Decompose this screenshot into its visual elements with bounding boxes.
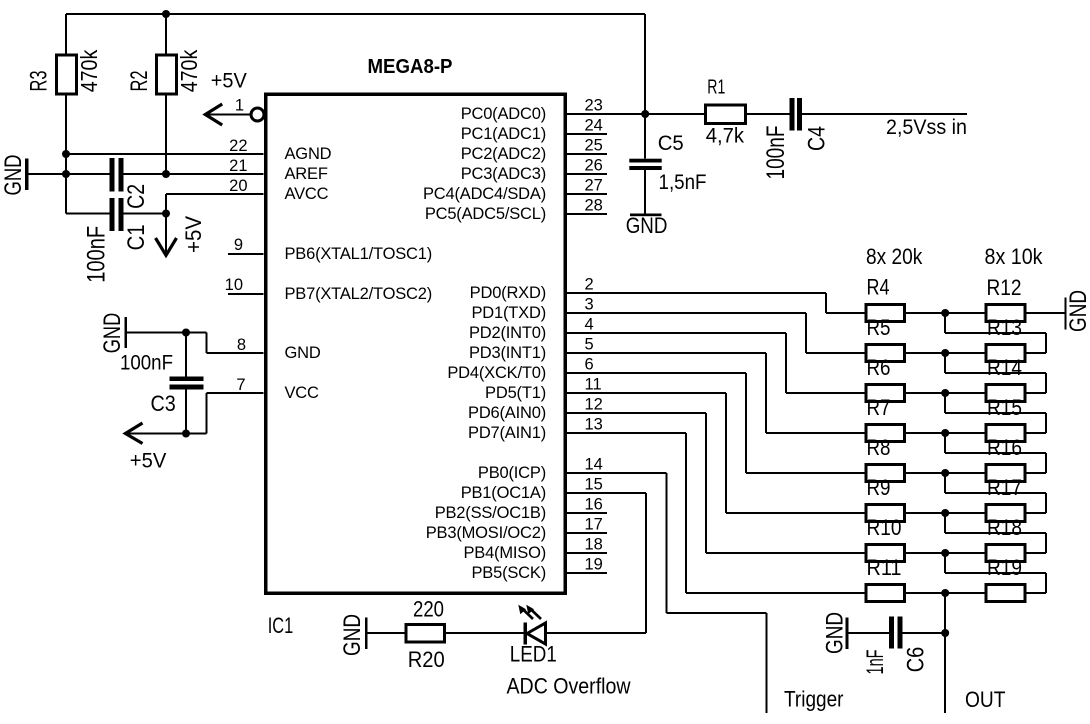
svg-text:+5V: +5V — [211, 70, 247, 93]
svg-text:ADC Overflow: ADC Overflow — [507, 674, 631, 699]
svg-text:R20: R20 — [408, 647, 445, 672]
svg-text:PD4(XCK/T0): PD4(XCK/T0) — [447, 364, 546, 382]
svg-text:R11: R11 — [867, 555, 902, 580]
svg-text:C1: C1 — [123, 224, 150, 250]
svg-text:PD6(AIN0): PD6(AIN0) — [468, 404, 546, 422]
svg-text:PC5(ADC5/SCL): PC5(ADC5/SCL) — [425, 205, 546, 223]
svg-text:GND: GND — [0, 155, 27, 196]
svg-text:23: 23 — [585, 97, 603, 115]
svg-text:R5: R5 — [867, 315, 891, 340]
svg-text:14: 14 — [585, 456, 603, 474]
svg-text:28: 28 — [585, 197, 603, 215]
svg-text:R13: R13 — [987, 315, 1022, 340]
svg-text:R12: R12 — [987, 275, 1022, 300]
svg-text:2,5Vss in: 2,5Vss in — [886, 116, 967, 139]
svg-text:GND: GND — [1065, 290, 1090, 332]
svg-text:PB0(ICP): PB0(ICP) — [478, 464, 546, 482]
svg-text:R17: R17 — [987, 475, 1022, 500]
svg-text:PB6(XTAL1/TOSC1): PB6(XTAL1/TOSC1) — [285, 245, 433, 263]
svg-text:IC1: IC1 — [268, 613, 294, 638]
svg-text:PB7(XTAL2/TOSC2): PB7(XTAL2/TOSC2) — [285, 285, 433, 303]
svg-text:PD1(TXD): PD1(TXD) — [472, 304, 547, 322]
svg-text:R10: R10 — [867, 515, 902, 540]
svg-text:+5V: +5V — [130, 450, 167, 473]
svg-text:MEGA8-P: MEGA8-P — [368, 56, 453, 78]
svg-text:+5V: +5V — [181, 216, 206, 253]
svg-text:PC3(ADC3): PC3(ADC3) — [461, 165, 546, 183]
svg-text:GND: GND — [99, 313, 126, 354]
svg-text:11: 11 — [585, 376, 602, 394]
svg-text:10: 10 — [225, 276, 243, 294]
svg-text:R7: R7 — [867, 395, 891, 420]
svg-text:OUT: OUT — [965, 687, 1006, 712]
svg-text:PD2(INT0): PD2(INT0) — [469, 324, 546, 342]
svg-text:20: 20 — [229, 177, 247, 195]
svg-text:21: 21 — [229, 157, 247, 175]
svg-text:R6: R6 — [867, 355, 891, 380]
svg-text:PC2(ADC2): PC2(ADC2) — [461, 145, 546, 163]
svg-text:GND: GND — [339, 614, 366, 656]
svg-text:PC4(ADC4/SDA): PC4(ADC4/SDA) — [423, 185, 546, 203]
svg-text:1: 1 — [235, 97, 244, 115]
svg-text:12: 12 — [585, 396, 603, 414]
svg-text:C3: C3 — [151, 391, 176, 416]
svg-text:18: 18 — [585, 536, 603, 554]
svg-text:C6: C6 — [902, 647, 929, 673]
svg-text:1,5nF: 1,5nF — [659, 171, 707, 194]
svg-text:5: 5 — [585, 336, 594, 354]
svg-text:PC1(ADC1): PC1(ADC1) — [461, 125, 546, 143]
svg-text:24: 24 — [585, 117, 603, 135]
svg-text:Trigger: Trigger — [784, 687, 844, 712]
svg-text:PD0(RXD): PD0(RXD) — [470, 284, 546, 302]
svg-text:19: 19 — [585, 556, 603, 574]
svg-text:PB2(SS/OC1B): PB2(SS/OC1B) — [435, 504, 546, 522]
svg-text:R3: R3 — [26, 71, 53, 92]
svg-text:R8: R8 — [867, 435, 891, 460]
svg-text:R18: R18 — [987, 515, 1022, 540]
svg-text:8x 20k: 8x 20k — [866, 244, 923, 269]
svg-text:25: 25 — [585, 137, 603, 155]
svg-text:PB3(MOSI/OC2): PB3(MOSI/OC2) — [426, 524, 546, 542]
svg-text:R2: R2 — [126, 71, 153, 92]
svg-text:R15: R15 — [987, 395, 1022, 420]
svg-text:13: 13 — [585, 416, 603, 434]
svg-text:22: 22 — [229, 137, 247, 155]
svg-text:R1: R1 — [707, 77, 725, 99]
svg-text:1nF: 1nF — [862, 650, 889, 675]
svg-text:9: 9 — [234, 236, 243, 254]
svg-text:PD3(INT1): PD3(INT1) — [469, 344, 546, 362]
svg-text:PD5(T1): PD5(T1) — [485, 384, 546, 402]
svg-text:GND: GND — [285, 344, 321, 362]
svg-text:AVCC: AVCC — [285, 185, 329, 203]
svg-text:100nF: 100nF — [83, 226, 111, 283]
svg-text:15: 15 — [585, 476, 603, 494]
svg-text:R14: R14 — [987, 355, 1022, 380]
svg-text:8: 8 — [237, 336, 246, 354]
svg-text:3: 3 — [585, 296, 594, 314]
svg-text:AREF: AREF — [285, 165, 328, 183]
svg-text:4,7k: 4,7k — [706, 125, 745, 148]
svg-text:27: 27 — [585, 177, 603, 195]
svg-text:8x 10k: 8x 10k — [985, 244, 1044, 269]
svg-text:470k: 470k — [76, 49, 102, 92]
svg-text:PB1(OC1A): PB1(OC1A) — [461, 484, 546, 502]
svg-text:6: 6 — [585, 356, 594, 374]
svg-text:GND: GND — [626, 213, 668, 238]
svg-text:100nF: 100nF — [120, 352, 173, 375]
svg-text:R19: R19 — [987, 555, 1022, 580]
svg-text:17: 17 — [585, 516, 603, 534]
svg-text:470k: 470k — [176, 49, 202, 92]
svg-text:AGND: AGND — [285, 145, 332, 163]
svg-text:R9: R9 — [867, 475, 891, 500]
svg-text:100nF: 100nF — [762, 126, 790, 180]
svg-text:PC0(ADC0): PC0(ADC0) — [461, 105, 546, 123]
svg-text:PB5(SCK): PB5(SCK) — [471, 564, 546, 582]
svg-text:7: 7 — [236, 376, 245, 394]
svg-text:16: 16 — [585, 496, 603, 514]
svg-text:PD7(AIN1): PD7(AIN1) — [468, 424, 546, 442]
svg-text:GND: GND — [821, 612, 848, 654]
svg-text:4: 4 — [585, 316, 594, 334]
svg-text:R4: R4 — [867, 275, 890, 300]
svg-text:C2: C2 — [123, 184, 150, 209]
svg-text:PB4(MISO): PB4(MISO) — [463, 544, 546, 562]
svg-text:C5: C5 — [658, 132, 684, 155]
svg-text:2: 2 — [585, 276, 594, 294]
svg-text:VCC: VCC — [285, 384, 320, 402]
svg-text:R16: R16 — [987, 435, 1022, 460]
svg-text:220: 220 — [413, 597, 444, 622]
svg-text:C4: C4 — [803, 126, 830, 151]
svg-text:LED1: LED1 — [510, 642, 557, 667]
svg-text:26: 26 — [585, 157, 603, 175]
